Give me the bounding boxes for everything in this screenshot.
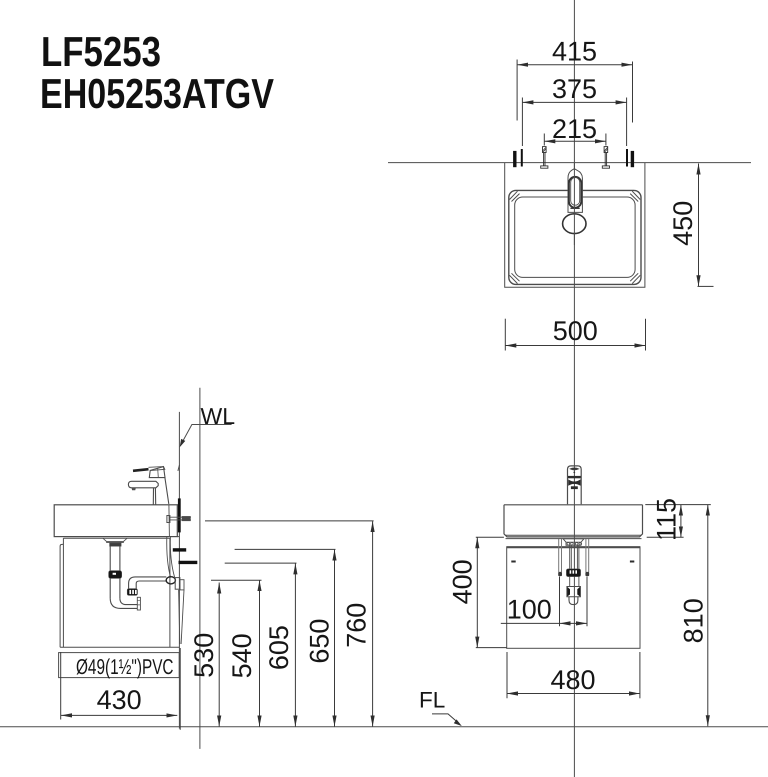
- dim 760 extension line: [205, 520, 374, 522]
- svg-text:100: 100: [507, 594, 552, 624]
- svg-text:760: 760: [342, 603, 372, 648]
- dim 375 extension line right: [626, 98, 628, 147]
- svg-text:605: 605: [264, 625, 294, 670]
- faucet front body outline: [568, 466, 582, 504]
- mounting T-bolt right: [602, 147, 609, 169]
- faucet front cap squiggle: [570, 468, 579, 470]
- faucet side lever handle: [133, 469, 149, 471]
- svg-text:500: 500: [553, 316, 598, 346]
- faucet side spout: [128, 481, 158, 488]
- svg-text:530: 530: [189, 633, 219, 678]
- supply pipe right: [586, 539, 589, 572]
- faucet side handle base body: [149, 467, 165, 478]
- dim 375 line with arrows: [522, 101, 626, 103]
- dim 415 line with arrows: [517, 64, 632, 66]
- hanger bracket bar inner left: [521, 149, 523, 167]
- rim corner chamfer bottom-left: [510, 273, 520, 283]
- dim 400 line with arrows: [476, 537, 478, 647]
- faucet plan neck bottom line: [570, 207, 579, 209]
- cabinet back line: [169, 538, 171, 647]
- svg-text:400: 400: [448, 559, 478, 604]
- trap outlet oval at wall: [166, 577, 175, 584]
- trap nut front black: [566, 569, 580, 577]
- faucet front dot: [573, 472, 575, 474]
- drain flange trapezoid: [563, 539, 584, 546]
- drain top nut: [110, 543, 122, 546]
- basin top edge to wall: [177, 504, 179, 506]
- wall fixing bolt rod: [170, 517, 191, 520]
- svg-text:FL: FL: [419, 688, 445, 713]
- dim 500 line with arrows: [505, 345, 645, 347]
- trap riser ribbed nut: [127, 589, 137, 596]
- dim 100 extension line right: [586, 577, 588, 627]
- svg-text:480: 480: [550, 665, 595, 695]
- wall line plan view: [388, 162, 751, 164]
- basin front inner bottom line: [506, 534, 642, 536]
- rim corner chamfer top-left: [510, 191, 520, 201]
- dim 430 extension line left: [60, 652, 62, 720]
- basin plan rim inner rounded rect: [515, 197, 635, 277]
- basin plan rim outer rounded rect: [509, 190, 641, 284]
- dim 115 bottom extension line: [647, 536, 684, 538]
- trap lower pipe: [110, 578, 120, 598]
- supply pipe left: [559, 539, 562, 572]
- trap elbow to horizontal: [110, 598, 137, 608]
- dim 500 extension line left: [504, 319, 506, 351]
- dim 400 top extension line: [476, 536, 504, 538]
- faucet plan inner capsule thick: [569, 177, 581, 208]
- svg-text:LF5253: LF5253: [41, 28, 161, 75]
- wall line outer (right): [199, 388, 201, 749]
- svg-text:WL: WL: [201, 403, 236, 429]
- dim 650 extension line: [235, 548, 336, 550]
- dim 480 line with arrows: [507, 693, 640, 695]
- svg-text:375: 375: [552, 74, 597, 104]
- drain flange nut circles: [567, 543, 570, 546]
- bottle trap cup: [567, 587, 581, 597]
- centerline overlay through faucet plan: [573, 163, 575, 245]
- wall anchor dash upper: [173, 548, 186, 551]
- FL label leader: [432, 714, 459, 724]
- svg-text:450: 450: [668, 201, 698, 246]
- trap union nut black: [109, 571, 122, 579]
- door handle right: [630, 561, 634, 563]
- rim corner chamfer top-right: [630, 191, 640, 201]
- svg-text:430: 430: [97, 685, 142, 715]
- faucet supply hose lower curve: [167, 537, 175, 578]
- dim 115 top extension line shared with 810: [645, 504, 711, 506]
- dim 375 extension line left: [521, 98, 523, 147]
- dim 430 extension line right: [179, 648, 181, 730]
- wall fixing bolt nut: [182, 516, 190, 520]
- wall hook stub near faucet: [178, 465, 180, 471]
- dim 450 line with arrows: [698, 164, 700, 287]
- trap riser and elbow to wall: [129, 577, 167, 589]
- faucet front lever bow-tie: [568, 479, 580, 485]
- dim 530 line with arrows: [218, 583, 220, 727]
- faucet front dark band: [568, 476, 581, 478]
- dim 100 line tail to text: [501, 622, 560, 624]
- dim 530-540 extension line: [211, 579, 262, 581]
- dim 115 line with arrows: [680, 505, 682, 538]
- hanger bracket bar outer left: [513, 151, 516, 167]
- dim 540 line with arrows: [259, 580, 261, 726]
- dim 430 line with arrows: [61, 714, 177, 716]
- dim 215 extension line left: [543, 134, 545, 146]
- dim 760 line with arrows: [372, 521, 374, 726]
- svg-text:540: 540: [227, 633, 257, 678]
- dim 480 extension line left: [506, 652, 508, 698]
- wall line inner (left): [178, 412, 180, 729]
- svg-text:215: 215: [552, 114, 597, 144]
- drain recess under basin: [103, 538, 127, 542]
- faucet side body column: [153, 478, 169, 505]
- dim 100 line with arrows: [560, 622, 588, 624]
- basin underside line: [506, 538, 642, 540]
- WL label leader: [182, 425, 232, 444]
- faucet side spout aerator tip: [132, 488, 136, 490]
- rim corner chamfer bottom-right: [630, 273, 640, 283]
- dim 480 extension line right: [639, 652, 641, 698]
- dim 500 extension line right: [645, 319, 647, 351]
- centerline: [573, 0, 575, 777]
- faucet plan inner capsule thin: [571, 178, 580, 206]
- hanger bracket bar inner right: [626, 149, 628, 167]
- wall anchor dash lower: [179, 561, 198, 564]
- faucet plan outer body: [568, 169, 582, 213]
- cabinet front carcass line: [62, 538, 64, 647]
- dim 450 extension line bottom: [698, 285, 714, 287]
- svg-text:810: 810: [678, 598, 708, 643]
- drain tailpipe front: [570, 545, 579, 569]
- hanger bracket bar outer right: [631, 151, 634, 167]
- basin plan outer body rectangle: [505, 163, 645, 288]
- bottle trap bottom cup: [569, 597, 578, 605]
- dim 810 line with arrows: [707, 505, 709, 727]
- trap pipe below nut: [570, 577, 579, 587]
- faucet plan drain circle: [563, 214, 586, 234]
- dim 400 bottom extension line: [476, 647, 507, 649]
- faucet supply hose upper: [168, 504, 171, 536]
- faucet front base dark block: [571, 486, 578, 489]
- svg-text:415: 415: [552, 36, 597, 66]
- PVC label box: [59, 653, 180, 678]
- dim 415 extension line left: [516, 60, 518, 121]
- svg-text:650: 650: [304, 619, 334, 664]
- cabinet front outer door line: [60, 544, 63, 647]
- cabinet bottom line: [60, 646, 179, 648]
- in-wall fitting: [180, 580, 184, 590]
- svg-text:EH05253ATGV: EH05253ATGV: [40, 70, 274, 117]
- dim 100 extension line left: [559, 577, 561, 627]
- mounting T-bolt left: [541, 147, 548, 169]
- trap escutcheon plate: [175, 578, 180, 590]
- dim 215 line with arrows: [544, 140, 606, 142]
- wall fixing bolt washer: [167, 516, 170, 523]
- svg-text:115: 115: [651, 498, 681, 541]
- wall bracket thick bar: [178, 498, 181, 532]
- dim 415 extension line right: [632, 62, 634, 123]
- dim 650 line with arrows: [334, 550, 336, 727]
- floor line FL: [0, 726, 768, 728]
- cabinet top line: [63, 537, 169, 539]
- in-wall drain taper: [179, 590, 184, 644]
- trap cleanout collar: [137, 597, 140, 610]
- cabinet front top edge thick: [507, 546, 640, 548]
- dim 605 line with arrows: [294, 563, 296, 726]
- basin front rectangle: [504, 505, 643, 537]
- basin side rectangle: [54, 505, 177, 537]
- svg-text:Ø49(1½")PVC: Ø49(1½")PVC: [76, 655, 174, 679]
- drain tailpipe: [110, 546, 120, 570]
- door handle left: [511, 561, 515, 563]
- dim 605 extension line: [225, 562, 297, 564]
- dim 215 extension line right: [605, 134, 607, 146]
- cabinet front rectangle: [507, 547, 640, 649]
